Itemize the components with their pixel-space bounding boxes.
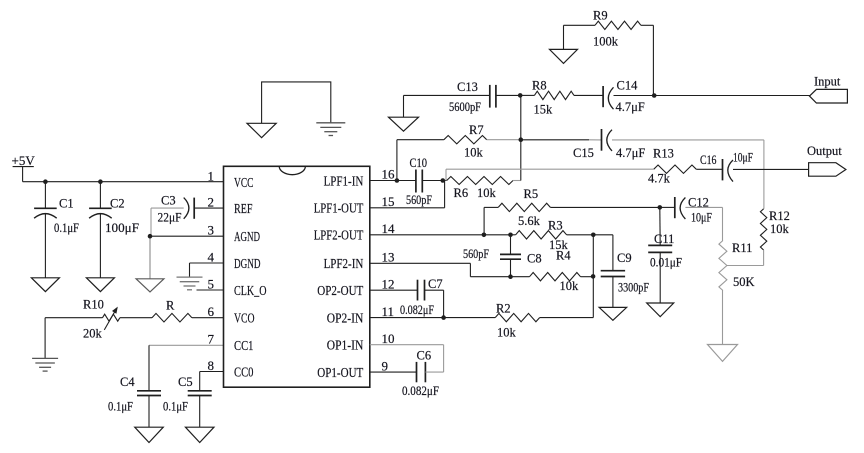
svg-text:15: 15 — [382, 194, 395, 209]
svg-text:C9: C9 — [617, 251, 632, 265]
svg-text:C8: C8 — [527, 252, 542, 266]
svg-text:R6: R6 — [454, 186, 469, 200]
svg-text:10μF: 10μF — [691, 211, 712, 225]
svg-text:CC0: CC0 — [234, 365, 254, 380]
svg-text:11: 11 — [382, 304, 395, 319]
svg-text:C12: C12 — [688, 195, 709, 209]
svg-text:2: 2 — [208, 194, 215, 209]
svg-text:22μF: 22μF — [158, 211, 182, 225]
svg-text:8: 8 — [208, 358, 215, 373]
svg-text:100μF: 100μF — [105, 221, 139, 235]
svg-text:Output: Output — [807, 144, 842, 158]
svg-text:16: 16 — [382, 167, 396, 182]
svg-text:5600pF: 5600pF — [449, 100, 481, 114]
svg-text:R5: R5 — [524, 187, 539, 201]
svg-text:C11: C11 — [654, 232, 674, 246]
svg-text:LPF2-OUT: LPF2-OUT — [314, 229, 364, 244]
svg-text:C1: C1 — [59, 197, 74, 211]
svg-text:VCO: VCO — [234, 312, 255, 327]
svg-text:R9: R9 — [593, 9, 608, 23]
svg-text:Input: Input — [814, 74, 841, 88]
svg-text:100k: 100k — [593, 35, 619, 49]
svg-text:R2: R2 — [496, 301, 511, 315]
svg-text:3: 3 — [208, 223, 215, 238]
svg-text:5: 5 — [208, 276, 215, 291]
svg-text:C14: C14 — [617, 79, 639, 93]
svg-text:560pF: 560pF — [463, 247, 489, 261]
svg-text:C4: C4 — [120, 375, 135, 389]
svg-text:C7: C7 — [428, 277, 443, 291]
svg-text:0.1μF: 0.1μF — [163, 399, 188, 413]
svg-text:VCC: VCC — [234, 176, 254, 191]
svg-text:C16: C16 — [700, 153, 717, 167]
svg-text:OP1-IN: OP1-IN — [327, 339, 364, 354]
svg-text:14: 14 — [382, 221, 396, 236]
svg-text:0.1μF: 0.1μF — [54, 221, 79, 235]
svg-text:R12: R12 — [769, 209, 790, 223]
svg-text:DGND: DGND — [234, 257, 261, 272]
svg-text:C6: C6 — [417, 349, 432, 363]
svg-text:C15: C15 — [573, 146, 594, 160]
svg-text:R3: R3 — [548, 219, 563, 233]
svg-text:20k: 20k — [83, 327, 103, 341]
svg-text:4.7μF: 4.7μF — [616, 100, 645, 114]
svg-text:0.082μF: 0.082μF — [402, 384, 439, 398]
svg-text:50K: 50K — [733, 275, 755, 289]
svg-text:R: R — [166, 298, 175, 312]
svg-text:13: 13 — [382, 250, 395, 265]
svg-text:AGND: AGND — [234, 230, 260, 245]
svg-text:6: 6 — [208, 304, 215, 319]
svg-text:3300pF: 3300pF — [618, 281, 649, 295]
svg-text:R8: R8 — [532, 79, 547, 93]
svg-text:10μF: 10μF — [733, 151, 753, 165]
svg-text:12: 12 — [382, 276, 395, 291]
svg-text:10k: 10k — [477, 186, 497, 200]
svg-text:10k: 10k — [560, 279, 580, 293]
svg-text:C3: C3 — [161, 193, 176, 207]
svg-text:1: 1 — [208, 168, 215, 183]
svg-text:OP1-OUT: OP1-OUT — [317, 366, 363, 381]
svg-text:0.01μF: 0.01μF — [650, 255, 682, 269]
svg-text:560pF: 560pF — [406, 193, 432, 207]
svg-text:9: 9 — [382, 358, 389, 373]
svg-text:0.082μF: 0.082μF — [400, 303, 434, 317]
svg-text:0.1μF: 0.1μF — [108, 399, 133, 413]
svg-text:4.7k: 4.7k — [648, 171, 671, 185]
svg-text:5.6k: 5.6k — [518, 214, 541, 228]
svg-text:OP2-OUT: OP2-OUT — [317, 284, 363, 299]
svg-text:REF: REF — [234, 202, 253, 217]
svg-text:C13: C13 — [457, 80, 478, 94]
svg-text:+5V: +5V — [12, 153, 36, 168]
svg-text:R13: R13 — [653, 147, 674, 161]
svg-text:CC1: CC1 — [234, 339, 254, 354]
svg-text:10k: 10k — [770, 222, 790, 236]
svg-text:C10: C10 — [410, 156, 428, 170]
svg-text:R10: R10 — [83, 297, 104, 311]
svg-text:R11: R11 — [732, 241, 752, 255]
svg-text:10k: 10k — [497, 326, 517, 340]
svg-text:7: 7 — [208, 332, 215, 347]
svg-text:C5: C5 — [178, 375, 193, 389]
svg-text:15k: 15k — [534, 103, 554, 117]
svg-text:4.7μF: 4.7μF — [616, 146, 645, 160]
svg-text:10: 10 — [382, 331, 395, 346]
svg-text:R7: R7 — [469, 123, 484, 137]
svg-text:10k: 10k — [464, 146, 484, 160]
svg-text:LPF1-IN: LPF1-IN — [324, 174, 364, 189]
svg-text:C2: C2 — [110, 197, 125, 211]
svg-text:4: 4 — [208, 249, 215, 264]
svg-text:LPF2-IN: LPF2-IN — [324, 257, 364, 272]
svg-text:LPF1-OUT: LPF1-OUT — [314, 202, 364, 217]
svg-text:OP2-IN: OP2-IN — [327, 312, 364, 327]
svg-text:CLK_O: CLK_O — [234, 284, 267, 299]
svg-text:R4: R4 — [556, 249, 571, 263]
